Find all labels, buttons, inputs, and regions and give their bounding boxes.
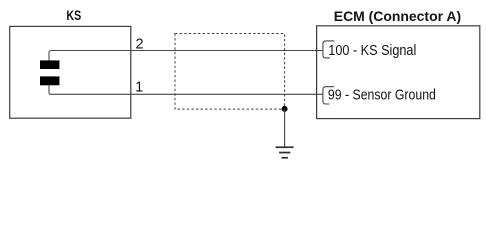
svg-text:2: 2 <box>136 37 144 53</box>
svg-text:ECM (Connector A): ECM (Connector A) <box>334 8 461 24</box>
svg-text:KS: KS <box>66 7 81 23</box>
junction: shield drain at dashed-box corner <box>282 106 288 112</box>
svg-text:100 - KS Signal: 100 - KS Signal <box>328 43 416 59</box>
connector pin 99 bracket <box>323 87 334 104</box>
knock sensor KS box <box>10 26 131 118</box>
knock sensor piezo element (upper plate) <box>40 60 59 69</box>
wire: sensor bottom lead, pin 1 to ECM pin 99 <box>49 85 323 94</box>
svg-text:1: 1 <box>135 79 143 95</box>
shield (dashed screen around wires) <box>175 34 285 110</box>
ECM box <box>317 26 480 119</box>
wire: shield drain to ground <box>284 109 286 147</box>
knock sensor piezo element (lower plate) <box>40 76 59 85</box>
svg-text:99 - Sensor Ground: 99 - Sensor Ground <box>328 88 436 104</box>
wire: sensor top lead, pin 2 to ECM pin 100 <box>49 51 323 61</box>
connector pin 100 bracket <box>323 41 335 58</box>
ground symbol <box>276 146 294 158</box>
